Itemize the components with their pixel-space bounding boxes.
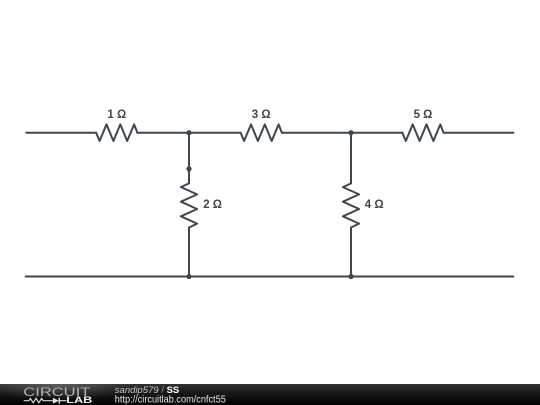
svg-text:LAB: LAB bbox=[66, 395, 92, 405]
svg-text:1 Ω: 1 Ω bbox=[107, 109, 126, 121]
logo wire diode to LAB bbox=[59, 400, 66, 402]
junction node A bottom bbox=[186, 274, 191, 279]
junction node A bbox=[186, 130, 191, 135]
svg-text:3 Ω: 3 Ω bbox=[252, 109, 271, 121]
svg-text:2 Ω: 2 Ω bbox=[203, 199, 222, 211]
wire R5 to bottom bbox=[350, 228, 352, 277]
footer bar bbox=[0, 384, 540, 405]
wire node A down bbox=[188, 133, 190, 184]
footer glow bbox=[0, 372, 133, 400]
logo diode cathode bar bbox=[58, 398, 60, 404]
wire node B to R3 bbox=[351, 132, 402, 134]
resistor R4 2ohm zigzag bbox=[181, 183, 197, 227]
wire top-left bbox=[26, 132, 96, 134]
resistor R3 5ohm zigzag bbox=[402, 124, 443, 141]
wire R2 to node B bbox=[282, 132, 351, 134]
logo resistor zigzag symbol bbox=[24, 398, 53, 402]
wire node B down bbox=[350, 133, 352, 184]
wire R3 to top-right bbox=[444, 132, 514, 134]
svg-text:http://circuitlab.com/cnfct55: http://circuitlab.com/cnfct55 bbox=[115, 394, 226, 405]
resistor R2 3ohm zigzag bbox=[241, 124, 282, 141]
svg-text:5 Ω: 5 Ω bbox=[414, 109, 433, 121]
wire node A to R2 bbox=[189, 132, 241, 134]
resistor R1 1ohm zigzag bbox=[96, 124, 137, 141]
resistor R5 4ohm zigzag bbox=[343, 183, 359, 227]
wire R1 to node A bbox=[137, 132, 189, 134]
wire R4 to bottom bbox=[188, 228, 190, 277]
junction node B bbox=[348, 130, 353, 135]
junction node A2 on vertical wire bbox=[186, 166, 191, 171]
wire bottom bbox=[26, 276, 514, 278]
svg-text:4 Ω: 4 Ω bbox=[365, 199, 384, 211]
junction node B bottom bbox=[348, 274, 353, 279]
logo diode symbol bbox=[53, 398, 59, 404]
